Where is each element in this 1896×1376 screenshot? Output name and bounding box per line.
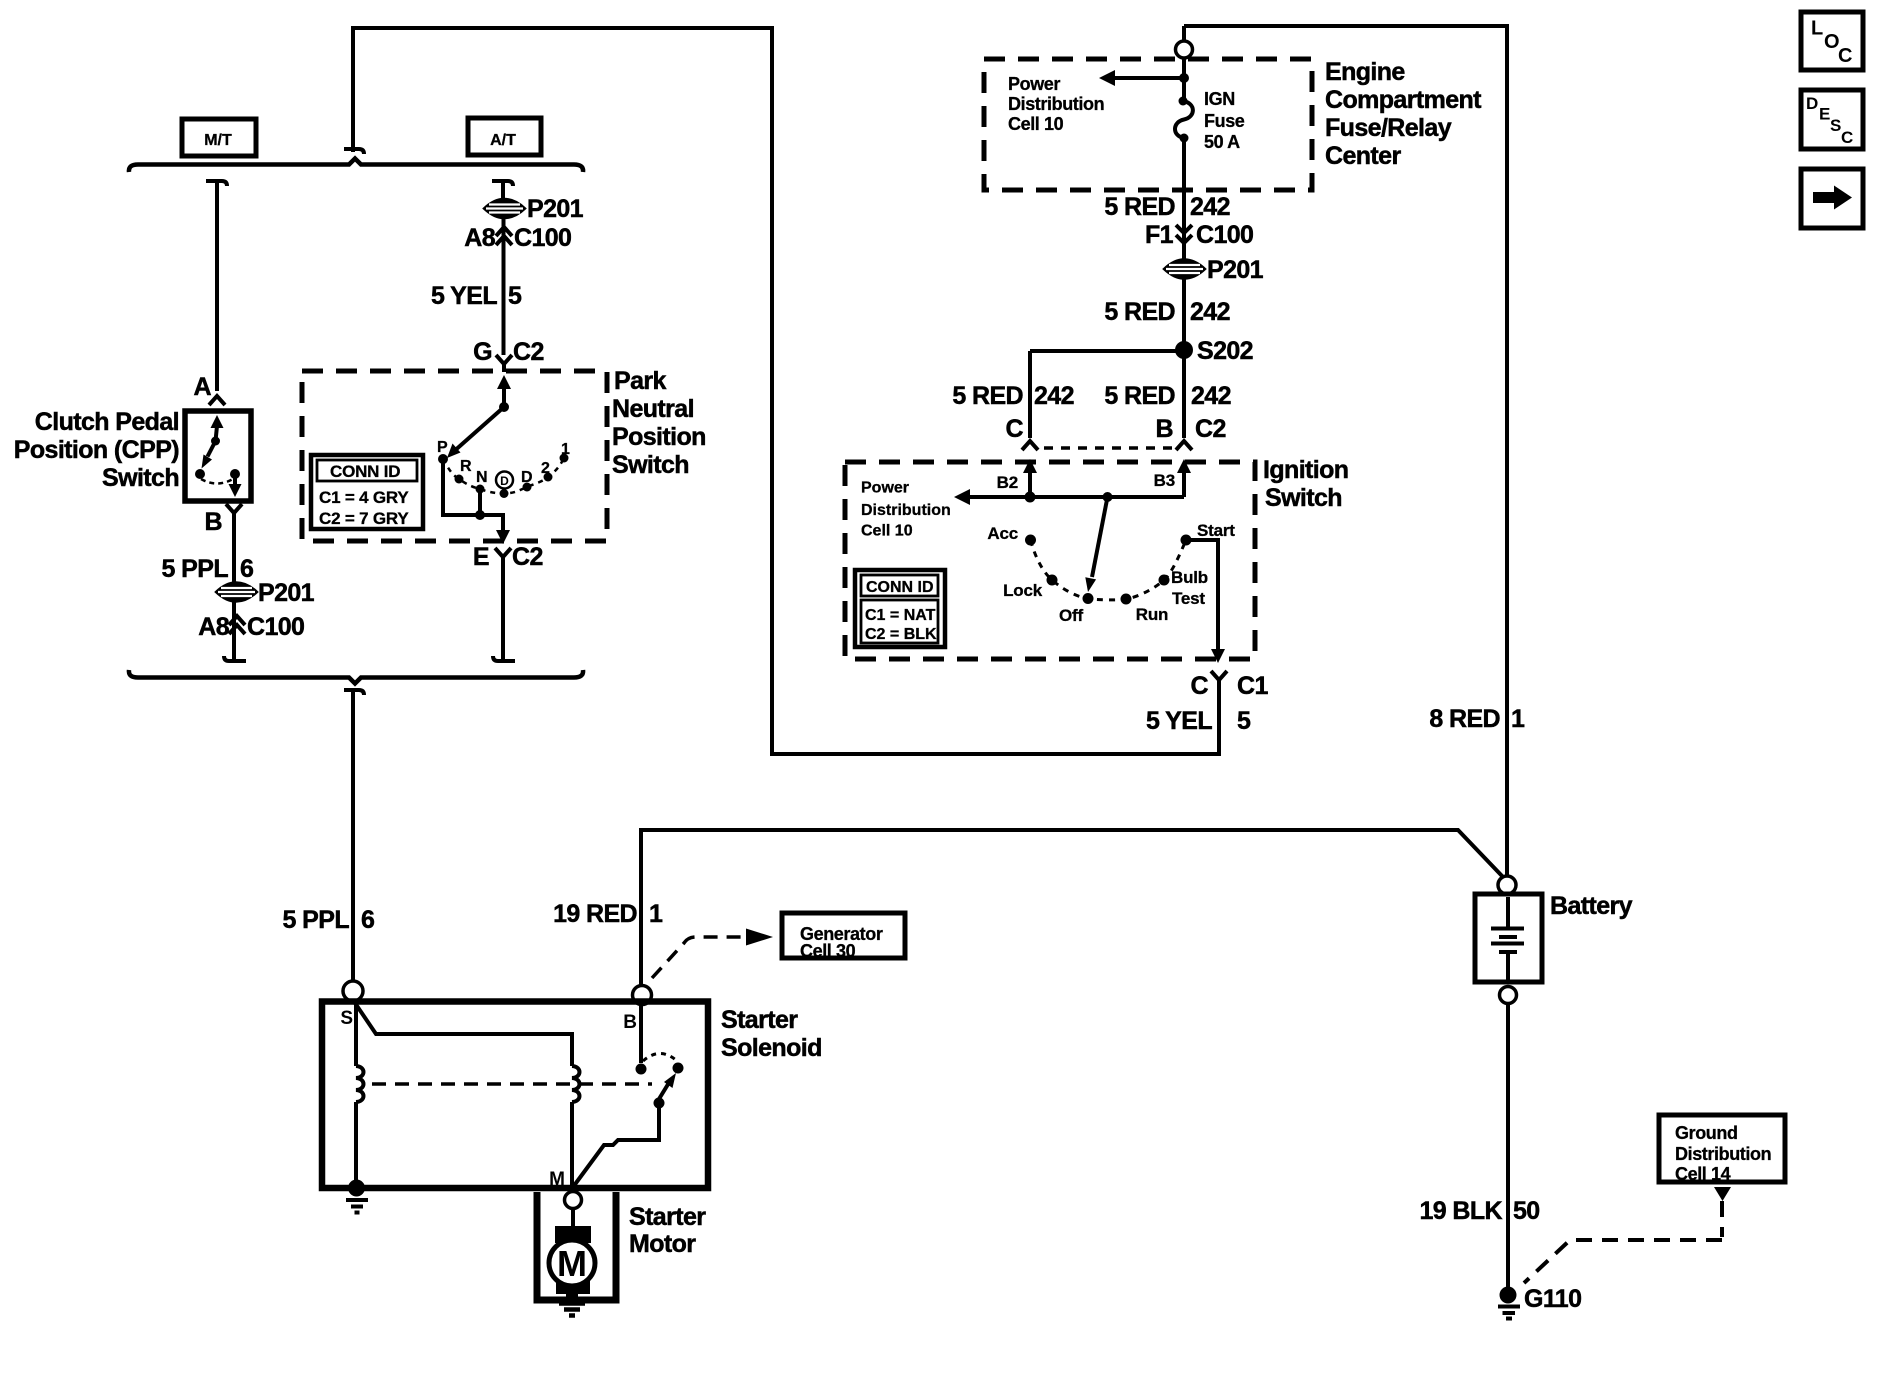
battery cells	[1491, 897, 1524, 982]
svg-text:Power: Power	[861, 480, 909, 497]
wire foot above bottom brace (A/T)	[493, 656, 515, 661]
svg-text:E: E	[473, 543, 489, 571]
splice S202	[1175, 337, 1253, 365]
grommet P201 A/T	[484, 195, 584, 223]
svg-text:S: S	[340, 1008, 353, 1029]
node B C2 labels	[1156, 415, 1226, 443]
Engine compartment label	[1325, 58, 1482, 170]
arrow to power distribution	[1099, 70, 1189, 86]
ground G110	[1498, 1285, 1581, 1319]
svg-text:242: 242	[1190, 298, 1230, 326]
svg-text:5 RED: 5 RED	[1104, 382, 1175, 410]
svg-text:Center: Center	[1325, 142, 1401, 170]
PNP wiper arm	[447, 402, 509, 458]
svg-text:242: 242	[1034, 382, 1074, 410]
svg-text:B: B	[1156, 415, 1173, 443]
svg-text:C1 = NAT: C1 = NAT	[865, 607, 936, 624]
Engine compartment fuse/relay center dashed box	[984, 59, 1312, 190]
starter solenoid label	[721, 1006, 822, 1062]
svg-text:Fuse: Fuse	[1204, 111, 1245, 131]
terminal circle S	[343, 981, 363, 1001]
svg-text:Park: Park	[614, 367, 667, 395]
svg-text:Starter: Starter	[721, 1006, 798, 1034]
battery top terminal	[1498, 876, 1516, 894]
svg-text:A8: A8	[198, 613, 229, 641]
wire A/T branch hook	[492, 181, 513, 186]
wire M/T branch to CPP switch	[215, 181, 219, 391]
wire pull-in coil to M	[570, 1102, 574, 1186]
wire bus to starter solenoid S	[344, 690, 364, 981]
ignition B2 entry arrow	[997, 459, 1037, 497]
wire top-left loop from bus to ignition output	[353, 28, 1219, 754]
svg-text:Test: Test	[1172, 589, 1205, 608]
connector ring top	[1176, 41, 1193, 58]
svg-text:C: C	[1006, 415, 1024, 443]
svg-text:Position (CPP): Position (CPP)	[14, 436, 179, 464]
svg-text:5 RED: 5 RED	[952, 382, 1023, 410]
svg-text:C1 = 4 GRY: C1 = 4 GRY	[319, 488, 409, 507]
svg-text:Battery: Battery	[1550, 892, 1633, 920]
wire B to P201	[232, 521, 236, 583]
svg-text:Position: Position	[612, 423, 706, 451]
connector Y below CPP	[226, 504, 242, 521]
svg-text:IGN: IGN	[1204, 89, 1235, 109]
solenoid contact right	[673, 1063, 684, 1074]
wire P201 to bus	[232, 602, 236, 661]
svg-text:M/T: M/T	[204, 132, 232, 149]
wire label 5 RED 242 (1)	[1104, 193, 1230, 221]
connector caret B	[1176, 441, 1192, 450]
solenoid moving contact	[573, 1073, 676, 1187]
svg-text:N: N	[476, 469, 488, 486]
svg-text:D: D	[1806, 94, 1818, 113]
ground at starter motor	[559, 1304, 585, 1316]
svg-text:P201: P201	[527, 195, 584, 223]
svg-text:C100: C100	[514, 224, 571, 252]
ground distribution pointer	[1714, 1187, 1731, 1201]
svg-text:Distribution: Distribution	[861, 502, 951, 519]
solenoid contact dashed arc	[643, 1054, 677, 1062]
starter motor	[549, 1226, 595, 1302]
svg-text:1: 1	[649, 900, 663, 928]
ignition key positions	[987, 521, 1235, 625]
fuse IGN 50A	[1175, 89, 1245, 152]
svg-text:R: R	[460, 458, 472, 475]
svg-text:Switch: Switch	[612, 451, 689, 479]
PNP entry arrow	[497, 375, 511, 407]
connector Y at E C2	[495, 548, 511, 565]
power distribution reference (ignition)	[861, 480, 951, 540]
ignition start output wire	[1186, 540, 1225, 663]
svg-text:Ignition: Ignition	[1263, 456, 1348, 484]
connector Y at C C1	[1211, 671, 1227, 696]
Ignition switch label	[1263, 456, 1348, 512]
wire label 5 RED 242 (right)	[1104, 382, 1231, 410]
terminal circle B	[633, 986, 652, 1005]
wire label 5 PPL 6 lower	[283, 906, 375, 934]
ignition B3 entry arrow	[1154, 459, 1191, 497]
node E C2 labels	[473, 543, 543, 571]
ground at solenoid	[346, 1180, 368, 1213]
svg-text:Switch: Switch	[102, 464, 179, 492]
svg-text:5 YEL: 5 YEL	[431, 282, 497, 310]
svg-text:6: 6	[240, 555, 253, 583]
svg-text:1: 1	[1511, 705, 1525, 733]
wire label 5 PPL 6	[162, 555, 254, 583]
DESC box	[1801, 90, 1863, 149]
svg-text:C: C	[1841, 128, 1853, 147]
svg-text:Motor: Motor	[629, 1230, 696, 1258]
svg-text:C100: C100	[247, 613, 304, 641]
terminal circle M	[565, 1192, 582, 1209]
node G C2 labels	[473, 338, 544, 366]
solenoid pull-in coil	[572, 1066, 580, 1102]
svg-text:Cell 10: Cell 10	[861, 523, 913, 540]
svg-text:C2: C2	[513, 338, 544, 366]
svg-text:C2 = 7 GRY: C2 = 7 GRY	[319, 509, 409, 528]
svg-text:A: A	[194, 373, 212, 401]
svg-text:5 PPL: 5 PPL	[162, 555, 229, 583]
wire top-right feed	[1184, 26, 1507, 876]
svg-text:C2: C2	[1195, 415, 1226, 443]
svg-text:C2 = BLK: C2 = BLK	[865, 626, 937, 643]
Ignition switch dashed box	[845, 462, 1255, 659]
svg-text:CONN ID: CONN ID	[866, 579, 934, 596]
solenoid pull-in coil feed	[355, 1003, 572, 1066]
connector caret A	[209, 396, 225, 405]
solenoid hold-in coil feed	[354, 1004, 358, 1066]
wire label 5 RED 242 (left)	[952, 382, 1074, 410]
Ground distribution box	[1659, 1115, 1785, 1184]
wire label 5 RED 242 (2)	[1104, 298, 1230, 326]
CONN ID box ignition	[855, 570, 945, 647]
svg-text:Distribution: Distribution	[1008, 94, 1104, 114]
plunger dashed link	[372, 1082, 652, 1086]
svg-text:5 RED: 5 RED	[1104, 193, 1175, 221]
svg-text:S: S	[1830, 116, 1841, 135]
dashed reference path to G110	[1524, 1201, 1722, 1283]
svg-text:19 RED: 19 RED	[553, 900, 637, 928]
svg-text:B2: B2	[997, 473, 1018, 492]
svg-text:M: M	[557, 1243, 587, 1284]
M/T box	[182, 119, 256, 156]
wire E to bottom bus	[501, 565, 505, 661]
svg-text:P201: P201	[1207, 256, 1264, 284]
wire S202 branch to C	[1030, 351, 1184, 438]
svg-text:A8: A8	[464, 224, 495, 252]
switch CPP box	[14, 408, 251, 501]
svg-text:C2: C2	[512, 543, 543, 571]
CONN ID box PNP	[311, 455, 423, 529]
svg-text:P: P	[437, 439, 448, 456]
svg-text:6: 6	[361, 906, 374, 934]
svg-text:5 PPL: 5 PPL	[283, 906, 350, 934]
starter solenoid box	[322, 1002, 708, 1189]
wire label 8 RED 1	[1429, 705, 1525, 733]
svg-text:Cell 30: Cell 30	[800, 941, 856, 961]
svg-text:Neutral: Neutral	[612, 395, 694, 423]
svg-text:Bulb: Bulb	[1171, 568, 1208, 587]
svg-text:5: 5	[1237, 707, 1251, 735]
wire M/T branch hook	[206, 181, 227, 186]
wire M to motor	[571, 1209, 575, 1227]
svg-text:CONN ID: CONN ID	[330, 462, 400, 481]
svg-text:Solenoid: Solenoid	[721, 1034, 822, 1062]
solenoid contact left	[636, 1064, 647, 1075]
svg-text:B3: B3	[1154, 471, 1175, 490]
wire battery to ground	[1506, 1003, 1510, 1287]
wire foot above bottom brace (M/T)	[224, 656, 246, 661]
svg-text:A/T: A/T	[490, 132, 516, 149]
svg-text:Lock: Lock	[1003, 581, 1043, 600]
wire label 19 RED 1	[553, 900, 663, 928]
svg-text:G110: G110	[1524, 1285, 1581, 1313]
switch CPP contacts	[195, 415, 242, 497]
svg-text:242: 242	[1190, 193, 1230, 221]
svg-text:S202: S202	[1197, 337, 1253, 365]
starter motor label	[629, 1203, 706, 1258]
svg-text:50 A: 50 A	[1204, 132, 1240, 152]
svg-text:C100: C100	[1196, 221, 1253, 249]
wire label 5 YEL 5	[431, 282, 522, 310]
solenoid hold-in coil	[356, 1066, 364, 1102]
grommet P201 right	[1164, 256, 1264, 284]
forward arrow box	[1801, 169, 1863, 228]
power distribution reference (fuse box)	[1008, 74, 1104, 134]
dashed reference arrow to Generator	[652, 929, 773, 979]
wire ignition C1 output label 5 YEL 5	[1146, 707, 1251, 735]
svg-text:Run: Run	[1136, 605, 1168, 624]
Generator Cell 30 box	[782, 913, 905, 961]
svg-text:B: B	[205, 508, 222, 536]
svg-text:P201: P201	[258, 579, 315, 607]
LOC box	[1801, 12, 1863, 70]
svg-text:G: G	[473, 338, 492, 366]
svg-text:E: E	[1819, 105, 1830, 124]
svg-text:L: L	[1811, 18, 1823, 40]
svg-text:B: B	[623, 1012, 637, 1033]
svg-text:242: 242	[1191, 382, 1231, 410]
ignition feed rail with arrow to power distribution	[954, 489, 1184, 505]
svg-text:5: 5	[508, 282, 522, 310]
svg-text:C: C	[1838, 45, 1852, 67]
wire into fuse center	[1182, 58, 1186, 98]
wire A/T to PNP switch	[502, 218, 506, 355]
PNP switch label	[612, 367, 706, 479]
svg-text:Engine: Engine	[1325, 58, 1405, 86]
svg-text:Power: Power	[1008, 74, 1060, 94]
battery bottom terminal	[1500, 987, 1517, 1004]
starter motor bracket	[537, 1192, 616, 1300]
battery box	[1475, 894, 1542, 982]
ignition wiper arrow	[1085, 497, 1107, 592]
svg-text:Ground: Ground	[1675, 1123, 1738, 1143]
PNP park circuit wiring	[443, 462, 510, 544]
svg-text:Start: Start	[1197, 521, 1235, 540]
connector caret C	[1022, 441, 1038, 450]
wire label 19 BLK 50	[1419, 1197, 1539, 1225]
node C C1 labels	[1191, 672, 1269, 700]
svg-text:Off: Off	[1059, 606, 1083, 625]
connector A8 C100 left	[198, 613, 304, 641]
svg-text:5 RED: 5 RED	[1104, 298, 1175, 326]
svg-text:D: D	[500, 474, 509, 488]
svg-text:C1: C1	[1237, 672, 1268, 700]
grommet P201 left	[216, 579, 315, 607]
svg-text:Acc: Acc	[987, 524, 1018, 543]
svg-text:Switch: Switch	[1265, 484, 1342, 512]
wire starter B to battery	[641, 830, 1503, 986]
connector F1 C100	[1145, 221, 1253, 249]
wire A/T branch	[501, 181, 505, 200]
svg-text:Fuse/Relay: Fuse/Relay	[1325, 114, 1452, 142]
svg-text:50: 50	[1513, 1197, 1540, 1225]
svg-text:Cell 10: Cell 10	[1008, 114, 1064, 134]
svg-text:8 RED: 8 RED	[1429, 705, 1500, 733]
svg-text:Compartment: Compartment	[1325, 86, 1482, 114]
svg-text:Distribution: Distribution	[1675, 1144, 1771, 1164]
connector A8 C100 A/T	[464, 224, 571, 252]
wire foot above top brace	[344, 149, 364, 154]
connector dashed separator	[1044, 446, 1172, 450]
wire fuse to ignition switch	[1182, 142, 1186, 438]
PNP switch dashed box	[302, 371, 607, 541]
svg-text:5 YEL: 5 YEL	[1146, 707, 1212, 735]
A/T box	[468, 118, 541, 155]
brace bottom bus	[129, 670, 583, 684]
brace top bus	[129, 159, 583, 173]
svg-text:M: M	[549, 1169, 565, 1190]
wire coil to ground	[354, 1102, 358, 1182]
connector Y at G C2	[496, 355, 512, 372]
svg-text:19 BLK: 19 BLK	[1419, 1197, 1502, 1225]
svg-text:Clutch Pedal: Clutch Pedal	[35, 408, 179, 436]
svg-text:Cell 14: Cell 14	[1675, 1164, 1731, 1184]
PNP position contacts and labels	[437, 439, 570, 498]
solenoid B contact feed	[639, 1004, 643, 1063]
svg-text:C: C	[1191, 672, 1209, 700]
svg-text:Starter: Starter	[629, 1203, 706, 1231]
svg-text:F1: F1	[1145, 221, 1174, 249]
